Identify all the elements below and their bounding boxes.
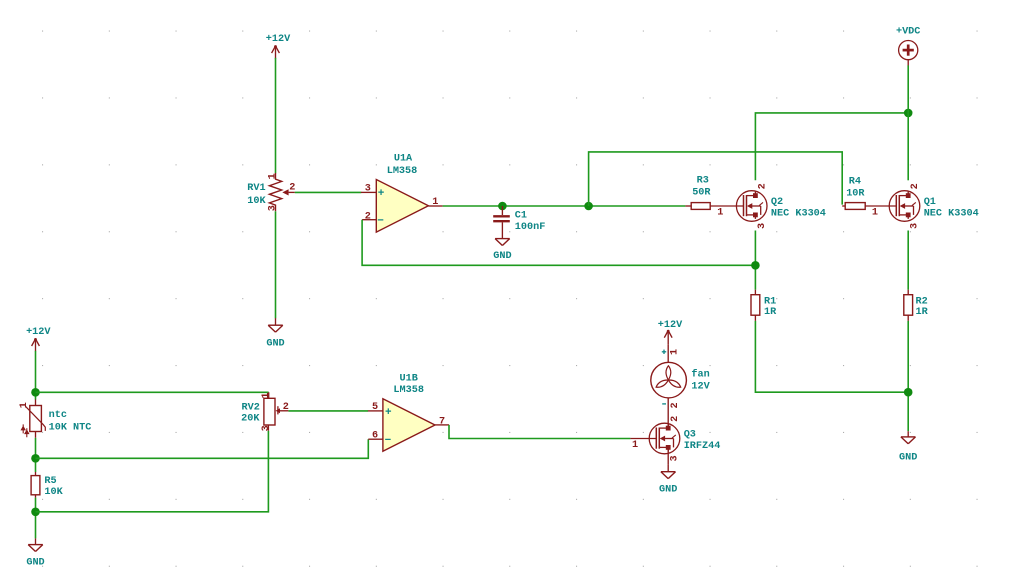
- svg-text:+12V: +12V: [266, 34, 291, 45]
- pin stub R2 bottom: [907, 315, 909, 321]
- svg-text:Q3: Q3: [684, 429, 696, 440]
- svg-text:3: 3: [757, 223, 768, 229]
- pin stub C1 top: [501, 206, 503, 215]
- ground under C1: [493, 239, 511, 262]
- wire U1A output to R3: [443, 205, 686, 207]
- wire junction to U1B pin6: [36, 439, 369, 458]
- svg-text:1: 1: [19, 402, 30, 408]
- wire R4 to Q1 gate: [865, 205, 896, 207]
- junction at C1 tap: [498, 202, 507, 211]
- pin 2 stub of U1A: [362, 219, 376, 221]
- fan plus marker: [662, 350, 666, 354]
- svg-text:7: 7: [439, 416, 445, 427]
- resistor R2: [904, 295, 929, 319]
- svg-text:NEC K3304: NEC K3304: [771, 208, 826, 219]
- pin 6 stub of U1B: [368, 438, 383, 440]
- pin stub R1 top: [754, 290, 756, 295]
- svg-text:RV2: RV2: [242, 402, 260, 413]
- svg-text:1R: 1R: [916, 307, 929, 318]
- power symbol +VDC: [899, 41, 918, 66]
- svg-text:NEC K3304: NEC K3304: [924, 208, 979, 219]
- svg-text:1: 1: [268, 173, 279, 179]
- svg-text:R4: R4: [849, 176, 861, 187]
- svg-text:100nF: 100nF: [515, 222, 546, 233]
- pin stub R2 top: [907, 290, 909, 295]
- svg-text:1: 1: [872, 208, 878, 219]
- pin stub R3 left: [685, 205, 691, 207]
- pin stub RV2 bottom: [267, 425, 269, 431]
- svg-text:GND: GND: [266, 338, 284, 349]
- svg-text:10K: 10K: [44, 487, 63, 498]
- svg-text:3: 3: [261, 425, 272, 431]
- op-amp U1A: [376, 180, 428, 233]
- resistor R3: [691, 176, 711, 210]
- svg-text:GND: GND: [899, 453, 917, 464]
- capacitor C1: [493, 216, 510, 221]
- gate pin of Q3: [630, 438, 656, 440]
- wire RV1 wiper to U1A pin3: [295, 191, 361, 193]
- gnd stub under Q3: [667, 465, 669, 472]
- wire RV1 pin3 to GND: [275, 211, 277, 318]
- svg-text:10R: 10R: [846, 188, 865, 199]
- svg-text:10K NTC: 10K NTC: [49, 422, 92, 433]
- source stub of Q3: [667, 447, 669, 464]
- svg-text:fan: fan: [691, 369, 709, 381]
- junction at GND rail: [904, 388, 913, 397]
- svg-text:+12V: +12V: [658, 320, 683, 331]
- pin stub C1 bottom: [501, 222, 503, 238]
- wire Q2 drain up and right: [755, 113, 908, 180]
- svg-text:R2: R2: [916, 296, 928, 307]
- gnd stub under RV1: [275, 318, 277, 325]
- wire junction to RV2 pin1: [36, 391, 269, 393]
- resistor R4: [845, 176, 865, 209]
- svg-text:+12V: +12V: [26, 327, 51, 338]
- svg-text:LM358: LM358: [387, 166, 418, 177]
- power symbol +12V (fan): [658, 320, 683, 344]
- svg-text:2: 2: [757, 183, 768, 189]
- svg-text:2: 2: [283, 402, 289, 413]
- svg-text:R5: R5: [44, 476, 56, 487]
- resistor R5: [31, 476, 64, 499]
- pin 7 stub of U1B: [435, 424, 449, 426]
- junction at +VDC node: [904, 109, 913, 118]
- wire +VDC to Q1 drain: [907, 65, 909, 180]
- ground under RV1: [266, 325, 284, 349]
- svg-text:1: 1: [717, 208, 723, 219]
- svg-text:2: 2: [670, 402, 681, 408]
- wire output branch up and right to R4: [589, 152, 843, 206]
- svg-text:GND: GND: [493, 251, 511, 262]
- svg-text:1: 1: [632, 440, 638, 451]
- svg-text:+VDC: +VDC: [896, 27, 920, 38]
- fan minus marker: [662, 403, 666, 405]
- wire R5 to GND: [35, 498, 37, 539]
- junction at output branch: [584, 202, 593, 211]
- svg-text:3: 3: [365, 184, 371, 195]
- svg-text:12V: 12V: [691, 381, 710, 392]
- svg-text:1R: 1R: [764, 307, 777, 318]
- power symbol +12V (top left): [266, 34, 291, 59]
- wire U1A pin2 feedback: [362, 220, 755, 266]
- svg-text:RV1: RV1: [247, 183, 265, 194]
- ground bottom left: [26, 545, 44, 569]
- svg-text:R3: R3: [697, 176, 709, 187]
- svg-text:3: 3: [268, 205, 279, 211]
- thermistor ntc body: [21, 406, 45, 438]
- wire ntc to R5: [35, 438, 37, 472]
- pin stub RV2 top: [268, 392, 270, 398]
- svg-text:C1: C1: [515, 210, 527, 221]
- fan motor symbol: [651, 362, 687, 398]
- wire junction to RV2 pin3: [36, 431, 269, 512]
- pin 3 stub of U1A: [361, 191, 376, 193]
- pin 5 stub of U1B: [368, 410, 383, 412]
- svg-text:2: 2: [289, 183, 295, 194]
- svg-text:3: 3: [910, 223, 921, 229]
- ground under Q3: [659, 472, 677, 496]
- svg-text:+: +: [385, 407, 392, 419]
- svg-text:U1B: U1B: [400, 374, 418, 385]
- junction at feedback node: [751, 261, 760, 270]
- svg-text:U1A: U1A: [394, 154, 413, 165]
- power symbol +12V (bottom left): [26, 327, 51, 351]
- pin stub R5 top: [35, 472, 37, 476]
- pin stub R5 bottom: [35, 495, 37, 498]
- svg-text:ntc: ntc: [49, 410, 67, 421]
- pin stub R4 left: [842, 205, 845, 207]
- svg-text:Q2: Q2: [771, 197, 783, 208]
- svg-text:2: 2: [365, 211, 371, 222]
- junction at NTC top: [31, 388, 40, 397]
- gnd stub bottom left: [35, 538, 37, 544]
- wire Q2 source to R1: [754, 231, 756, 290]
- wire R3 to Q2 gate: [710, 205, 743, 207]
- svg-text:GND: GND: [659, 485, 677, 496]
- transistor Q3: [649, 423, 680, 454]
- svg-text:3: 3: [670, 455, 681, 461]
- wire Q1 source to R2: [907, 231, 909, 290]
- svg-text:1: 1: [261, 393, 272, 399]
- svg-text:2: 2: [910, 183, 921, 189]
- pin stub ntc top: [35, 399, 37, 405]
- junction at R5 top: [31, 454, 40, 463]
- wire RV2 wiper to U1B pin5: [288, 410, 368, 412]
- svg-text:6: 6: [372, 430, 378, 441]
- svg-text:−: −: [377, 215, 384, 227]
- wire R2 bottom to GND: [907, 321, 909, 431]
- svg-text:−: −: [385, 435, 392, 447]
- svg-text:IRFZ44: IRFZ44: [684, 441, 721, 452]
- gnd stub under R2: [907, 431, 909, 437]
- svg-text:2: 2: [670, 416, 681, 422]
- wire +12V to NTC: [35, 351, 37, 400]
- svg-text:20K: 20K: [241, 414, 260, 425]
- op-amp U1B: [383, 399, 435, 452]
- transistor Q2: [736, 191, 767, 222]
- wire R1 bottom to GND rail: [755, 321, 908, 392]
- transistor Q1: [889, 191, 920, 222]
- ground under R2: [899, 437, 917, 464]
- svg-text:R1: R1: [764, 296, 776, 307]
- svg-text:10K: 10K: [247, 196, 266, 207]
- pin stub fan minus to Q3 drain: [667, 398, 669, 430]
- svg-text:50R: 50R: [692, 188, 711, 199]
- svg-text:LM358: LM358: [393, 385, 424, 396]
- svg-text:Q1: Q1: [924, 197, 936, 208]
- svg-text:5: 5: [372, 402, 378, 413]
- potentiometer RV2 body: [264, 398, 289, 425]
- wire U1B output to Q3 gate: [449, 425, 630, 439]
- svg-text:1: 1: [670, 349, 681, 355]
- potentiometer RV1 body: [269, 173, 294, 211]
- junction at R5 bottom: [31, 508, 40, 517]
- pin stub R1 bottom: [754, 315, 756, 321]
- pin 1 stub of U1A: [428, 205, 442, 207]
- svg-text:+: +: [378, 188, 385, 200]
- resistor R1: [751, 295, 777, 319]
- wire +12V to RV1 pin1: [275, 58, 277, 173]
- pin stub ntc bottom: [35, 432, 37, 438]
- pin stub fan plus: [667, 344, 669, 362]
- svg-text:GND: GND: [26, 558, 44, 569]
